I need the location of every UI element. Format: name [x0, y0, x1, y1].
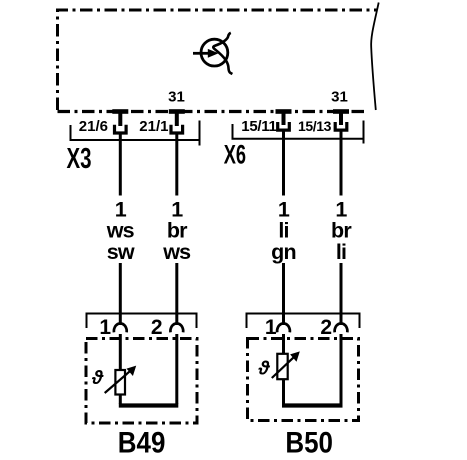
svg-text:1: 1 — [265, 316, 277, 339]
svg-text:ϑ: ϑ — [258, 359, 271, 380]
svg-text:li: li — [336, 240, 346, 264]
svg-text:21/6: 21/6 — [79, 118, 108, 135]
svg-text:31: 31 — [168, 89, 185, 106]
svg-text:31: 31 — [331, 89, 348, 106]
svg-text:21/1: 21/1 — [139, 118, 168, 135]
svg-text:1: 1 — [99, 316, 111, 339]
svg-text:ws: ws — [106, 218, 135, 242]
svg-text:2: 2 — [151, 316, 163, 339]
svg-text:B49: B49 — [118, 426, 166, 459]
svg-text:ws: ws — [162, 240, 191, 264]
svg-text:2: 2 — [320, 316, 332, 339]
svg-text:br: br — [167, 218, 188, 242]
svg-text:li: li — [278, 218, 288, 242]
svg-text:15/11: 15/11 — [241, 118, 276, 135]
svg-text:br: br — [331, 218, 352, 242]
svg-text:ϑ: ϑ — [91, 368, 104, 389]
svg-text:B50: B50 — [285, 426, 333, 459]
svg-text:sw: sw — [107, 240, 135, 264]
svg-text:15/13: 15/13 — [298, 118, 332, 134]
svg-text:X6: X6 — [224, 139, 246, 169]
svg-text:X3: X3 — [67, 143, 92, 175]
svg-text:gn: gn — [271, 240, 296, 264]
